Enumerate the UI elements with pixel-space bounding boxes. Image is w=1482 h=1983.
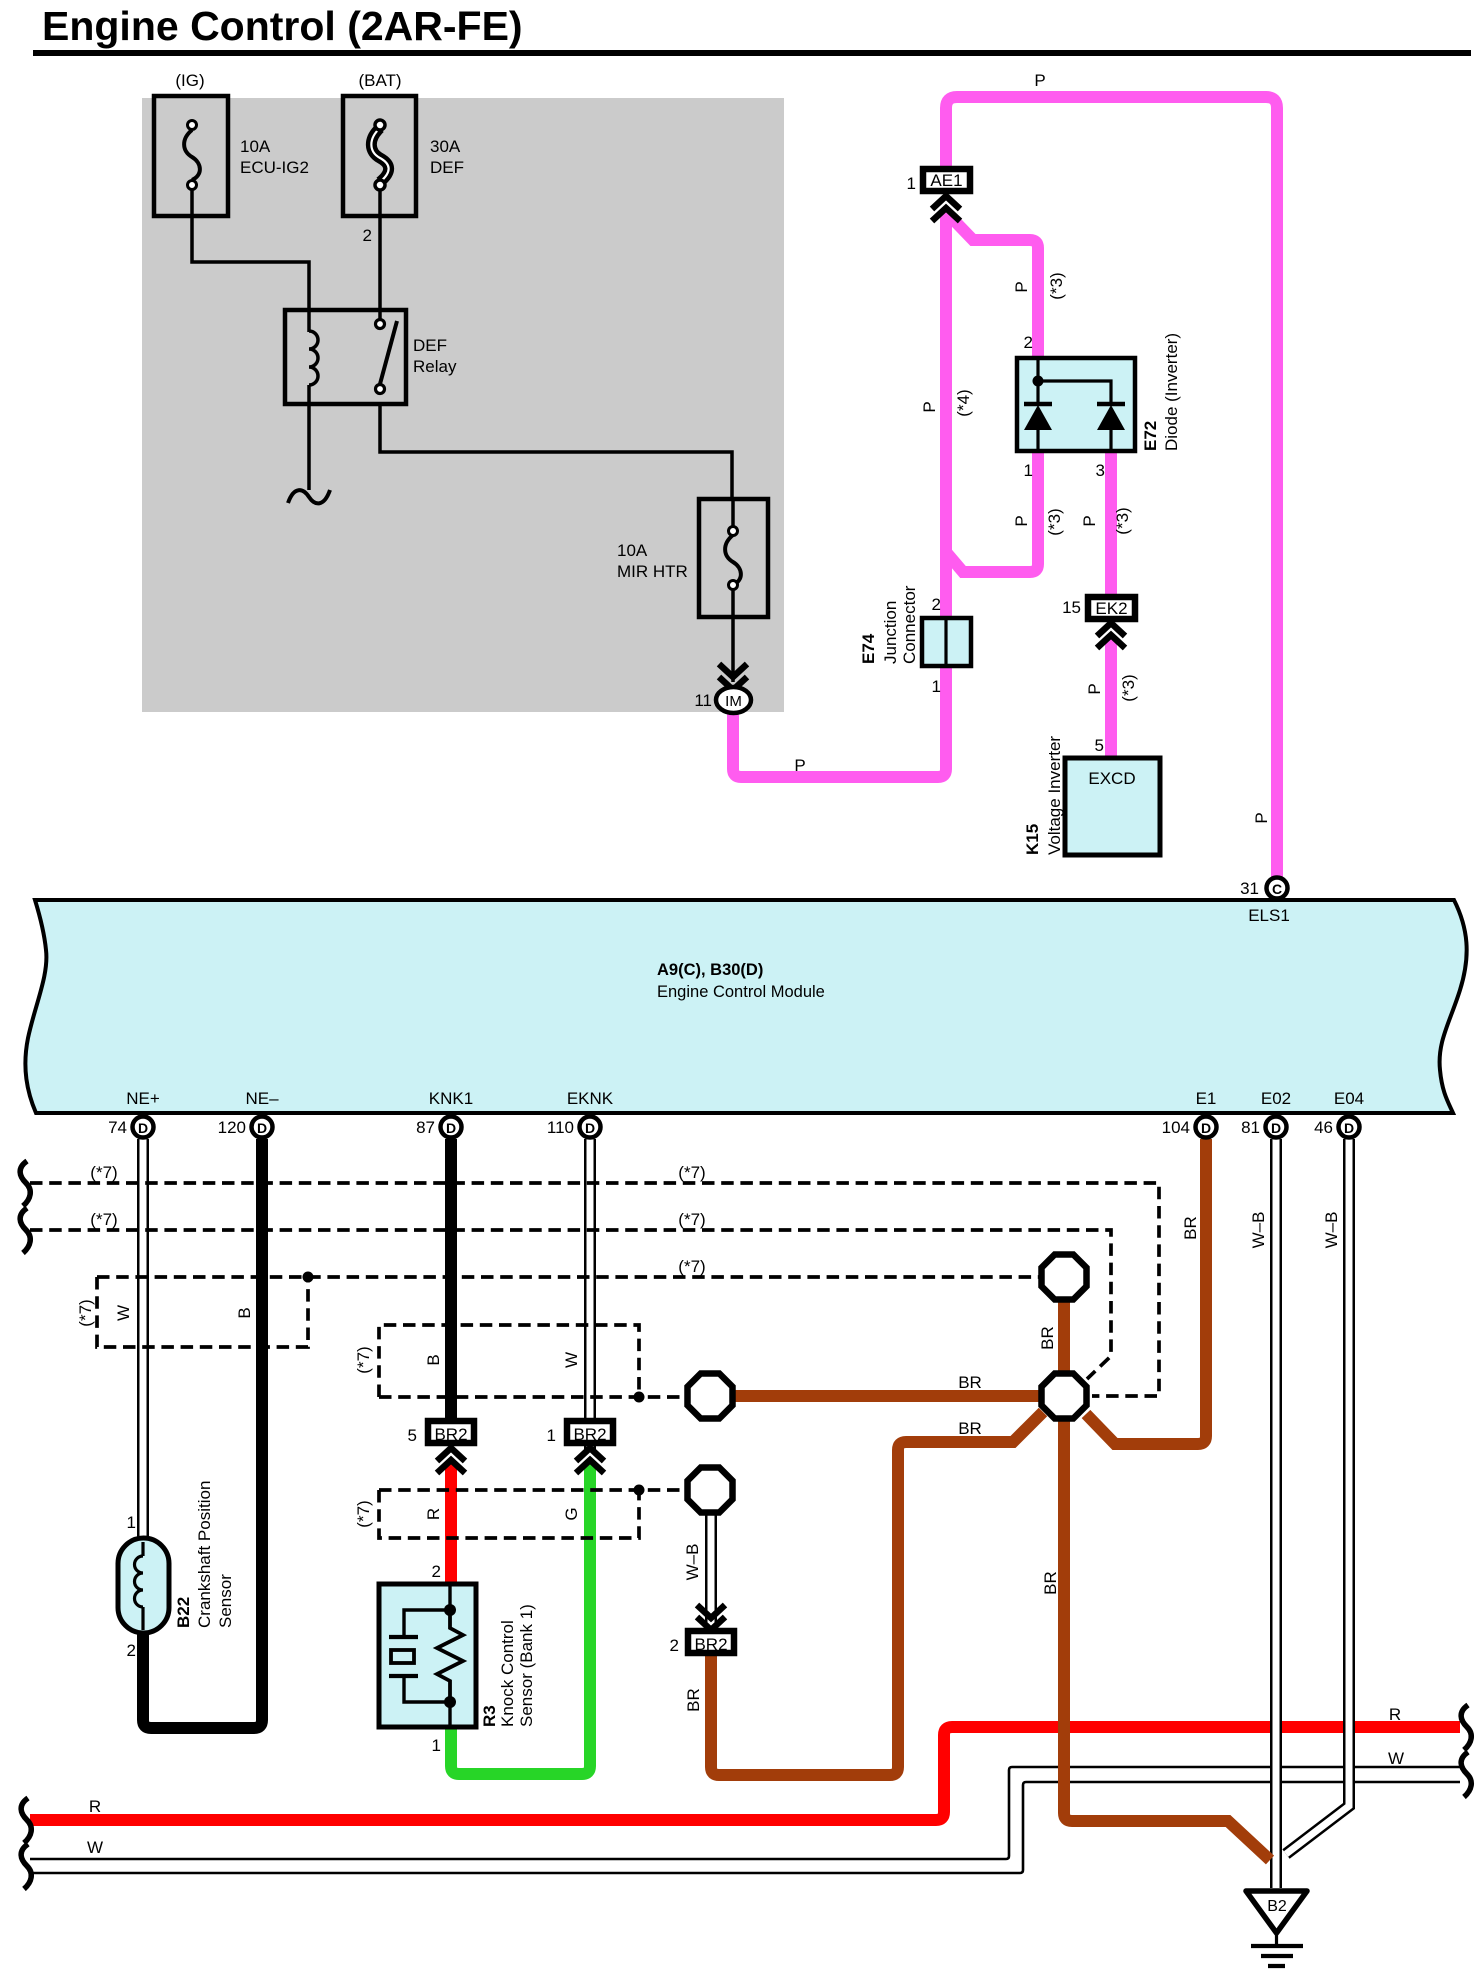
junction connector E74 box (922, 618, 971, 666)
svg-text:(*7): (*7) (354, 1500, 373, 1527)
svg-text:D: D (1344, 1120, 1354, 1136)
svg-text:(*7): (*7) (354, 1346, 373, 1373)
svg-text:P: P (1252, 812, 1271, 823)
svg-text:A9(C), B30(D): A9(C), B30(D) (657, 961, 763, 979)
chevron arrows into IM (719, 664, 747, 690)
svg-text:P: P (1012, 515, 1031, 526)
connector AE1 box (923, 169, 970, 191)
chevron arrows into EK2 (1097, 623, 1125, 648)
wire NE+ white pair from pin 74 to B22 (137, 1139, 149, 1540)
svg-text:E02: E02 (1261, 1089, 1291, 1108)
svg-text:B: B (424, 1354, 443, 1365)
svg-text:120: 120 (218, 1118, 246, 1137)
svg-text:P: P (794, 756, 805, 775)
connector EK2 box (1088, 597, 1135, 619)
connector BR2 pin 5 box (428, 1421, 474, 1443)
svg-text:R: R (424, 1508, 443, 1520)
crankshaft position sensor B22 body (118, 1538, 169, 1633)
ECM module band A9(C) B30(D) (25, 900, 1466, 1113)
svg-text:W: W (1388, 1749, 1404, 1768)
svg-text:E74: E74 (859, 633, 878, 664)
chevron arrows into BR2 pin 1 (576, 1448, 604, 1473)
svg-text:R3: R3 (480, 1705, 499, 1727)
wire E04 W-B pair from pin 46 to ground junction (1286, 1139, 1349, 1854)
pin EKNK 110 D (547, 1089, 614, 1138)
chevron arrows into BR2 pin 2 (697, 1605, 725, 1630)
svg-text:ECU-IG2: ECU-IG2 (240, 158, 309, 177)
svg-text:2: 2 (363, 226, 372, 245)
svg-text:2: 2 (432, 1562, 441, 1581)
title underline (33, 50, 1471, 56)
continuation squiggle below relay coil (288, 490, 330, 503)
pin NE+ 74 D (108, 1089, 160, 1138)
svg-text:AE1: AE1 (930, 171, 962, 190)
R3 internal wiring (404, 1584, 456, 1727)
chevron arrows into AE1 (932, 196, 960, 221)
svg-text:2: 2 (127, 1641, 136, 1660)
svg-text:MIR HTR: MIR HTR (617, 562, 688, 581)
svg-text:E72: E72 (1141, 421, 1160, 451)
svg-text:B22: B22 (174, 1597, 193, 1628)
knock control sensor R3 box (379, 1584, 476, 1727)
svg-text:2: 2 (1024, 333, 1033, 352)
svg-text:Sensor (Bank 1): Sensor (Bank 1) (517, 1604, 536, 1727)
octagon junction J3 (688, 1374, 733, 1419)
svg-text:W: W (562, 1352, 581, 1368)
wire BR E1 from pin 104 to octagon J2 (1086, 1139, 1206, 1444)
diode E72 internal wiring (1033, 358, 1112, 403)
connector IM oval (716, 687, 751, 713)
junction dot middle box to octagon (634, 1392, 645, 1403)
shield dashed line 2 (*7) (30, 1230, 1111, 1379)
svg-text:10A: 10A (617, 541, 648, 560)
wire fuse MIR HTR to IM connector (731, 589, 735, 682)
svg-text:ELS1: ELS1 (1248, 906, 1290, 925)
svg-text:NE+: NE+ (126, 1089, 160, 1108)
svg-text:10A: 10A (240, 137, 271, 156)
svg-text:74: 74 (108, 1118, 127, 1137)
svg-text:1: 1 (907, 174, 916, 193)
svg-text:W–B: W–B (1322, 1212, 1341, 1249)
svg-text:BR: BR (958, 1373, 982, 1392)
svg-text:(*7): (*7) (90, 1163, 117, 1182)
pin E04 46 D (1314, 1089, 1364, 1138)
svg-text:(*7): (*7) (678, 1210, 705, 1229)
svg-text:Diode (Inverter): Diode (Inverter) (1162, 333, 1181, 451)
svg-text:(*7): (*7) (678, 1257, 705, 1276)
svg-text:DEF: DEF (430, 158, 464, 177)
pin KNK1 87 D (416, 1089, 473, 1138)
svg-text:2: 2 (670, 1636, 679, 1655)
svg-text:C: C (1272, 881, 1282, 897)
svg-text:W: W (114, 1305, 133, 1321)
wire relay coil to body continuation (307, 404, 311, 490)
wire fuse ECU-IG2 to DEF relay coil (192, 190, 309, 312)
svg-text:81: 81 (1241, 1118, 1260, 1137)
wire NE- black thick from pin 120 to B22 pin 2 (143, 1139, 262, 1728)
wire fuse DEF to relay switch (378, 190, 382, 320)
svg-text:B: B (235, 1307, 254, 1318)
octagon junction J4 (688, 1468, 733, 1513)
svg-text:46: 46 (1314, 1118, 1333, 1137)
svg-text:D: D (585, 1120, 595, 1136)
brace end dashed line 2 (20, 1208, 30, 1253)
ground symbol bars (1251, 1933, 1303, 1966)
svg-text:BR2: BR2 (434, 1425, 467, 1444)
svg-text:D: D (1201, 1120, 1211, 1136)
svg-text:NE–: NE– (245, 1089, 279, 1108)
junction dot on dashed line 3 (303, 1272, 314, 1283)
svg-text:W: W (87, 1838, 103, 1857)
brace end W rail left (21, 1844, 31, 1889)
svg-text:K15: K15 (1023, 824, 1042, 855)
svg-text:Voltage Inverter: Voltage Inverter (1045, 736, 1064, 855)
svg-text:(*3): (*3) (1047, 272, 1066, 299)
svg-text:1: 1 (432, 1736, 441, 1755)
diode 2 (right) (1097, 404, 1125, 451)
svg-text:5: 5 (408, 1426, 417, 1445)
svg-text:BR: BR (1181, 1216, 1200, 1240)
svg-text:D: D (446, 1120, 456, 1136)
svg-text:(*7): (*7) (678, 1163, 705, 1182)
svg-text:P: P (920, 401, 939, 412)
diode assembly E72 box (1017, 358, 1135, 451)
fuse ECU-IG2 element (184, 121, 200, 190)
svg-text:BR2: BR2 (694, 1635, 727, 1654)
brace end R rail right (1461, 1705, 1471, 1750)
connector BR2 pin 1 box (567, 1421, 613, 1443)
svg-text:EXCD: EXCD (1088, 769, 1135, 788)
svg-text:IM: IM (725, 693, 742, 710)
svg-text:E1: E1 (1196, 1089, 1217, 1108)
svg-text:Knock Control: Knock Control (498, 1620, 517, 1727)
connector BR2 pin 2 box (688, 1631, 734, 1653)
svg-text:1: 1 (932, 677, 941, 696)
svg-text:P: P (1080, 515, 1099, 526)
svg-text:G: G (562, 1507, 581, 1520)
wire P pink top loop AE1 to ECM pin 31 (946, 97, 1277, 877)
wire P pink E74 pin 1 down and left to IM (733, 664, 946, 777)
svg-text:BR: BR (1038, 1326, 1057, 1350)
pin 31 circle C (1267, 878, 1288, 899)
svg-text:D: D (1271, 1120, 1281, 1136)
svg-text:(*4): (*4) (954, 389, 973, 416)
svg-text:15: 15 (1062, 598, 1081, 617)
svg-text:D: D (138, 1120, 148, 1136)
svg-text:Engine Control Module: Engine Control Module (657, 983, 825, 1001)
wire relay switch to fuse MIR HTR (380, 404, 732, 500)
gray background panel (other-system area) (142, 98, 784, 712)
relay DEF box (285, 310, 406, 404)
octagon junction J2 (1042, 1374, 1087, 1419)
svg-text:11: 11 (694, 691, 712, 710)
svg-text:Relay: Relay (413, 357, 457, 376)
octagon junction J1 (1042, 1255, 1087, 1300)
wire W bottom rail line 2 (30, 1782, 1460, 1873)
voltage inverter K15 box (1065, 758, 1160, 855)
wire EKNK white pair from pin 110 to BR2 (584, 1139, 596, 1452)
R3 piezo element (plates and crystal) (389, 1637, 418, 1676)
svg-text:1: 1 (127, 1513, 136, 1532)
svg-text:(BAT): (BAT) (358, 71, 401, 90)
diode 1 (left) (1024, 404, 1052, 451)
svg-text:104: 104 (1162, 1118, 1190, 1137)
B22 coil element (135, 1542, 144, 1630)
brace end W rail right (1461, 1752, 1471, 1797)
svg-text:30A: 30A (430, 137, 461, 156)
svg-text:P: P (1034, 71, 1045, 90)
svg-text:R: R (89, 1797, 101, 1816)
svg-text:EK2: EK2 (1095, 599, 1127, 618)
svg-text:W–B: W–B (683, 1544, 702, 1581)
svg-text:Crankshaft Position: Crankshaft Position (195, 1481, 214, 1628)
svg-text:1: 1 (1024, 461, 1033, 480)
svg-text:BR2: BR2 (573, 1425, 606, 1444)
wire BR octagon J1 to octagon J2 (1058, 1301, 1070, 1373)
wire BR octagon J3 to octagon J2 (733, 1390, 1041, 1402)
wire P pink branch to diode E72 pin 2 (946, 212, 1038, 360)
wire P pink diode E72 pin 3 down to EK2 (1105, 449, 1117, 596)
svg-text:BR: BR (1041, 1571, 1060, 1595)
svg-text:P: P (1085, 683, 1104, 694)
wire W-B pair octagon to BR2 connector 2 (705, 1512, 717, 1627)
wire E02 W-B pair from pin 81 to B2 ground (1270, 1139, 1282, 1888)
svg-text:1: 1 (547, 1426, 556, 1445)
shield dashed line 3 (*7) (97, 1275, 1040, 1279)
ground B2 triangle (1246, 1891, 1307, 1933)
svg-text:(IG): (IG) (175, 71, 204, 90)
brace end dashed line 1 (20, 1161, 30, 1206)
pin E1 104 D (1162, 1089, 1217, 1138)
chevron arrows into BR2 pin 5 (437, 1448, 465, 1473)
svg-text:R: R (1389, 1705, 1401, 1724)
svg-text:2: 2 (932, 595, 941, 614)
svg-text:(*3): (*3) (1113, 507, 1132, 534)
svg-text:110: 110 (547, 1118, 574, 1137)
shield dashed box middle (KNK1/EKNK) (379, 1325, 685, 1397)
svg-text:P: P (1012, 281, 1031, 292)
wire KNK1 black thick from pin 87 to BR2 connector 5 (445, 1139, 457, 1420)
fuse 10A ECU-IG2 box (154, 96, 228, 216)
fuse DEF element (high-current) (371, 120, 388, 190)
svg-text:EKNK: EKNK (567, 1089, 614, 1108)
brace end R rail left (21, 1798, 31, 1843)
junction dot lower box to octagon (634, 1485, 645, 1496)
relay switch contacts and blade (376, 320, 398, 394)
svg-text:(*7): (*7) (90, 1210, 117, 1229)
svg-text:87: 87 (416, 1118, 435, 1137)
svg-text:Sensor: Sensor (216, 1574, 235, 1628)
svg-text:5: 5 (1095, 736, 1104, 755)
svg-text:Connector: Connector (900, 585, 919, 664)
svg-text:(*7): (*7) (76, 1299, 95, 1326)
wire P pink AE1 chevron down to E74 pin 2 (940, 211, 952, 620)
wire BR octagon J2 to BR2 connector 2 (711, 1412, 1043, 1775)
wire BR octagon J2 down to B2 ground junction (1064, 1420, 1270, 1860)
wire W bottom rail line 1 (30, 1767, 1460, 1859)
svg-text:3: 3 (1096, 461, 1105, 480)
svg-text:D: D (257, 1120, 267, 1136)
wire P pink diode E72 pin 1 back to main vertical (946, 449, 1038, 572)
svg-text:E04: E04 (1334, 1089, 1364, 1108)
svg-text:BR: BR (684, 1688, 703, 1712)
pin E02 81 D (1241, 1089, 1291, 1138)
fuse 10A MIR HTR box (699, 499, 768, 617)
svg-text:Engine Control (2AR-FE): Engine Control (2AR-FE) (42, 3, 523, 49)
svg-text:Junction: Junction (881, 601, 900, 664)
svg-text:(*3): (*3) (1045, 508, 1064, 535)
svg-text:31: 31 (1240, 879, 1259, 898)
svg-text:(*3): (*3) (1119, 674, 1138, 701)
svg-text:DEF: DEF (413, 336, 447, 355)
wire G green from R3 pin 1 to BR2 connector 1 (451, 1461, 590, 1774)
svg-text:KNK1: KNK1 (429, 1089, 473, 1108)
wire P pink EK2 chevron down to EXCD pin 5 (1105, 636, 1117, 760)
shield dashed box lower (R/G) (379, 1490, 685, 1538)
fuse 30A DEF box (343, 96, 416, 216)
relay coil (309, 310, 318, 404)
R3 resistor zigzag (437, 1610, 463, 1702)
wire R red from BR2 chevron to R3 pin 2 (445, 1461, 457, 1586)
svg-text:BR: BR (958, 1419, 982, 1438)
svg-text:B2: B2 (1267, 1898, 1287, 1915)
pin NE- 120 D (218, 1089, 279, 1138)
wire R (red) bottom rail lower-left to upper-right (30, 1727, 1460, 1820)
shield dashed box left (NE+/NE-) (97, 1277, 308, 1347)
fuse MIR HTR element (725, 499, 741, 590)
svg-text:W–B: W–B (1249, 1212, 1268, 1249)
shield dashed line 1 (*7) (30, 1183, 1159, 1396)
